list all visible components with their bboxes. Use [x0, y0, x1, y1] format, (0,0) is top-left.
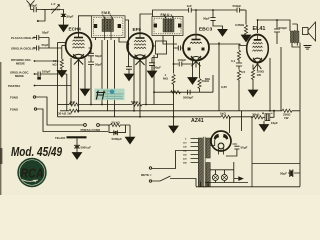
capacitor: [34, 35, 49, 40]
wire: [41, 9, 52, 11]
svg-text:Mod. 45/49: Mod. 45/49: [11, 145, 62, 159]
svg-text:FONO: FONO: [10, 96, 19, 100]
capacitors on x=91 right of ECH4: [88, 48, 94, 105]
capacitor 500pF EL41: [274, 20, 280, 44]
right vertical B+ wire: [299, 43, 301, 187]
transformer tap labels: [183, 139, 187, 165]
tube ECH4 leads: [79, 16, 92, 34]
antenna: [27, 1, 35, 10]
svg-text:MΩ: MΩ: [163, 77, 168, 81]
rectifier AZ41: [211, 131, 231, 155]
collector stamp teal: [95, 87, 125, 102]
speaker: [303, 28, 309, 35]
capacitor 50pF branch to ground: [210, 10, 222, 29]
svg-text:30kΩ: 30kΩ: [252, 113, 260, 117]
svg-text:MΩ: MΩ: [205, 77, 210, 81]
capacitor 500pF top right: [237, 8, 245, 13]
tube EF9 leads: [140, 14, 152, 34]
svg-text:500pF: 500pF: [279, 26, 288, 30]
svg-text:1nF: 1nF: [187, 4, 193, 8]
svg-text:50pF: 50pF: [95, 63, 102, 67]
svg-text:1W: 1W: [257, 73, 262, 77]
svg-text:500pF: 500pF: [29, 4, 38, 8]
svg-text:50pF: 50pF: [203, 17, 210, 21]
svg-text:500pF: 500pF: [233, 4, 242, 8]
svg-text:PRESA FONO: PRESA FONO: [81, 128, 101, 132]
FME bottom leads: [95, 38, 97, 41]
svg-text:50pF: 50pF: [42, 31, 49, 35]
svg-text:PLACCA OSCILL.: PLACCA OSCILL.: [11, 36, 35, 40]
resistor 1M: [173, 64, 175, 74]
ground: [57, 71, 66, 78]
wire: [37, 109, 108, 132]
horizontal bus B: [60, 110, 69, 112]
svg-text:RCA: RCA: [21, 166, 44, 181]
resistor 10k under ECH4: [60, 59, 63, 69]
terminal FONO 1: [33, 96, 35, 98]
svg-text:50pF: 50pF: [42, 43, 49, 47]
tube EL41 anode lead: [258, 20, 291, 33]
svg-text:F.M.E.: F.M.E.: [102, 11, 112, 15]
wire: [35, 60, 58, 62]
svg-text:50pF: 50pF: [154, 66, 161, 70]
svg-text:16μF: 16μF: [271, 121, 278, 125]
svg-text:50pF: 50pF: [95, 54, 102, 58]
svg-text:PIASTRA: PIASTRA: [8, 84, 20, 88]
screen wire EL41: [269, 58, 271, 111]
scan edge artifact left: [0, 62, 1, 195]
capacitor 1nF in top wire: [189, 8, 237, 13]
IF transformer FMU box: [152, 17, 183, 36]
svg-text:kΩ: kΩ: [53, 63, 58, 67]
svg-text:Ħ: Ħ: [95, 87, 106, 102]
capacitor 100pF mica: [35, 72, 67, 77]
svg-text:50 kΩ: 50 kΩ: [112, 120, 121, 124]
grid resistor EL41: [240, 10, 246, 25]
vertical bus wires left: [57, 43, 59, 117]
terminal RITORNO OSC MEDIE: [34, 60, 36, 62]
FME lead verticals: [101, 40, 103, 105]
trimmer coil L.F: [52, 9, 60, 11]
RC network 50k / 5000pF: [110, 123, 120, 126]
junction dots: [78, 110, 80, 112]
ground: [59, 25, 68, 32]
svg-text:0,5: 0,5: [241, 70, 246, 74]
power transformer: [198, 138, 202, 187]
chain right of EBC3: resistor cap resistor: [238, 44, 240, 50]
svg-text:100pF: 100pF: [178, 58, 187, 62]
node dot: [37, 20, 39, 22]
terminal GRIGLIA OSC MEDIE: [34, 73, 36, 75]
terminal FONO 2: [34, 108, 36, 110]
svg-text:0,5MΩ: 0,5MΩ: [235, 23, 245, 27]
svg-text:50μF: 50μF: [280, 172, 287, 176]
wire node A: [48, 38, 50, 49]
electrolytic 16uF on bus C: [265, 114, 270, 121]
RETE terminals and switch: [149, 167, 151, 169]
svg-text:L.F: L.F: [51, 2, 56, 6]
small value labels: [29, 2, 292, 177]
IF transformer FME box: [92, 16, 126, 38]
svg-text:5000 pF: 5000 pF: [81, 146, 92, 150]
svg-text:30 kΩ 1W: 30 kΩ 1W: [58, 112, 72, 116]
PRESA FONO jack: [84, 124, 87, 127]
horizontal bus C: [58, 116, 222, 118]
terminal PLACCA OSCILL: [33, 37, 35, 39]
pilot lamps: [210, 170, 234, 175]
wire to terminal dot: [39, 10, 45, 22]
speaker ground: [304, 46, 312, 50]
filter cap AZ41: [226, 144, 240, 156]
tube EBC3: [183, 35, 209, 68]
wire: [59, 10, 64, 14]
svg-text:1kΩ: 1kΩ: [220, 112, 226, 116]
wires under ECH4: [70, 58, 72, 105]
wires under EF9: [133, 58, 135, 111]
FMU bottom leads: [163, 36, 177, 45]
capacitor 50pF: [34, 46, 62, 51]
AZ41 plate leads: [210, 117, 229, 146]
svg-text:FONO: FONO: [10, 108, 19, 112]
terminal TERRA: [34, 85, 36, 87]
svg-text:TELAIO: TELAIO: [55, 136, 66, 140]
TELAIO chassis lead: [67, 136, 87, 138]
electrolytic 50uF output: [288, 172, 300, 174]
svg-text:100pF: 100pF: [42, 70, 51, 74]
tube EBC3 leads: [195, 10, 197, 34]
terminal labels left: [8, 36, 91, 150]
tube labels: [69, 26, 266, 124]
output transformer: [290, 31, 293, 43]
wire: [35, 85, 72, 87]
capacitor 100pF under EBC3: [174, 57, 193, 66]
capacitor with ground under EF9: [149, 58, 155, 72]
RCA logo: [17, 158, 46, 187]
svg-text:MEDIE: MEDIE: [15, 74, 24, 78]
svg-text:AZ41: AZ41: [191, 118, 204, 124]
wire: [36, 97, 84, 125]
wire EBC3 right to EL41 grid: [209, 42, 220, 111]
svg-text:0,1: 0,1: [231, 59, 236, 63]
resistor 50k EBC3: [199, 62, 201, 78]
capacitor 500pF antenna: [31, 7, 42, 12]
tube ECH4: [66, 33, 92, 66]
svg-text:1W: 1W: [284, 116, 289, 120]
tube EL41: [247, 35, 269, 71]
svg-text:EF9: EF9: [133, 27, 142, 32]
cathode resistor box EF9: [156, 41, 167, 54]
svg-text:ECH4: ECH4: [69, 27, 82, 32]
terminal GRIGLIA OSCILL: [33, 47, 35, 49]
svg-text:GRIGLIA OSCILL.: GRIGLIA OSCILL.: [11, 47, 35, 51]
svg-text:F.M.U.: F.M.U.: [161, 13, 171, 17]
svg-text:50μF: 50μF: [241, 146, 248, 150]
tube EF9: [127, 33, 153, 66]
electrolytic bottom right: [234, 117, 300, 187]
svg-text:5000pF: 5000pF: [112, 137, 123, 141]
svg-text:RETE ≈: RETE ≈: [141, 173, 152, 177]
transformer taps: [191, 139, 199, 163]
svg-text:EBC3: EBC3: [199, 27, 213, 32]
capacitor with ground mid: [126, 44, 132, 74]
ground stub on bus C: [173, 117, 175, 126]
bottom bus: [196, 186, 300, 188]
svg-text:1kΩ: 1kΩ: [70, 100, 76, 104]
bottom RC row EBC3: [153, 55, 155, 105]
ground under EBC3: [192, 64, 194, 78]
capacitor 20pF: [61, 14, 66, 25]
horizontal bus A: [58, 104, 70, 106]
svg-text:MEDIE: MEDIE: [16, 62, 25, 66]
heater wire with arrow: [234, 178, 239, 180]
svg-text:50kΩ: 50kΩ: [131, 100, 139, 104]
svg-text:EL41: EL41: [253, 26, 266, 32]
top AVC wire: [153, 10, 189, 17]
svg-text:5000pF: 5000pF: [183, 96, 194, 100]
cathode resistor 150ohm EL41: [252, 65, 254, 70]
svg-text:0,25: 0,25: [221, 85, 227, 89]
svg-text:20pF: 20pF: [67, 15, 74, 19]
